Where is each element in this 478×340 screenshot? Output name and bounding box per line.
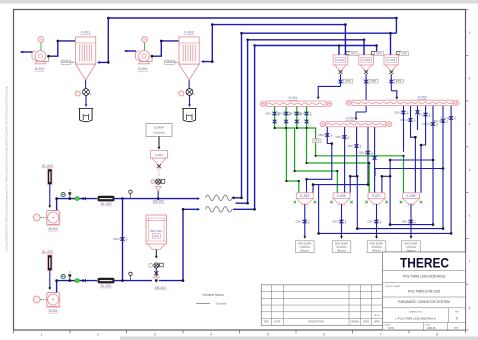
wire SL-002 to EB-002 junction [114, 198, 165, 200]
wire B-003 discharge to F-001 [49, 41, 76, 56]
wire SL-001 to DB-001 [114, 280, 152, 282]
wire F-001 to container [85, 96, 87, 106]
wire B-003 suction open [21, 51, 33, 53]
svg-text:CBV-9: CBV-9 [394, 111, 402, 115]
svg-text:CBV-6: CBV-6 [335, 135, 343, 139]
pressure gauge on B-002 line [61, 193, 65, 197]
bag dump station K-007 [368, 193, 385, 199]
bypass run R2 y228.6 [357, 176, 443, 228]
svg-text:DPS: DPS [396, 79, 402, 83]
wire EB-002 to hose 1 [165, 198, 198, 200]
svg-text:DZWS: DZWS [166, 60, 174, 64]
svg-text:BRU-001: BRU-001 [151, 229, 163, 233]
flex hose 1 [206, 195, 232, 201]
wire feeds to K-004 [390, 33, 392, 55]
wire BRU-001 down [155, 250, 157, 257]
svg-text:CBV-10: CBV-10 [400, 118, 409, 122]
svg-text:F-002: F-002 [184, 31, 193, 35]
svg-text:CBV-11: CBV-11 [415, 113, 424, 117]
svg-text:CBV-7: CBV-7 [347, 144, 355, 148]
rotary valve under F-002 [179, 91, 184, 96]
svg-text:B-003: B-003 [35, 67, 44, 71]
svg-text:CBV-3: CBV-3 [332, 220, 340, 224]
silencer SL-002 inline [98, 196, 114, 201]
svg-text:a: a [469, 31, 471, 35]
wire K-003 to H-002 [356, 112, 366, 118]
crossover wire x122 down [122, 199, 124, 281]
svg-text:CBV-3: CBV-3 [288, 112, 296, 116]
svg-text:DATE: DATE [425, 323, 430, 326]
container under F-001 [80, 109, 93, 122]
silencer SL-001 inline [98, 278, 114, 283]
svg-text:DPS: DPS [376, 52, 382, 56]
svg-text:DZWS: DZWS [62, 60, 70, 64]
svg-text:SL-003: SL-003 [42, 250, 53, 254]
drop H-003 #5 [432, 106, 434, 225]
wire y150 to K-005 center [307, 151, 332, 193]
title block frame [383, 252, 466, 330]
svg-text:EB-002: EB-002 [153, 200, 164, 204]
revision table [261, 285, 383, 326]
svg-text:K-003: K-003 [362, 58, 370, 62]
svg-text:d: d [469, 168, 471, 172]
svg-text:6: 6 [323, 332, 325, 336]
svg-text:CBV-2: CBV-2 [277, 112, 285, 116]
wire header H3 y33 [242, 32, 397, 34]
svg-text:DB-001: DB-001 [155, 286, 166, 290]
wire K-007 down [376, 204, 378, 237]
wire K-005 down [304, 204, 306, 237]
svg-text:THEREC: THEREC [400, 255, 449, 271]
svg-text:DRAWING NO: DRAWING NO [409, 311, 423, 314]
station label box K-005 [296, 241, 315, 253]
drop H-003 #7 [450, 106, 452, 233]
svg-text:PCS-TWIN-LION-2015: PCS-TWIN-LION-2015 [408, 289, 441, 293]
svg-text:CBV-3: CBV-3 [367, 220, 375, 224]
valve under K-004 [390, 74, 392, 91]
svg-text:DATE: DATE [275, 321, 281, 324]
svg-text:K-008: K-008 [407, 194, 416, 198]
svg-text:H-001: H-001 [289, 96, 298, 100]
scrap cyclone box [146, 124, 172, 137]
drop H-002 #4 [313, 127, 368, 193]
svg-text:DPS: DPS [402, 52, 408, 56]
drop H-002 #2 [344, 127, 346, 193]
svg-text:STATION: STATION [300, 246, 310, 249]
svg-text:SL-004: SL-004 [42, 164, 53, 168]
blower B-001 [33, 296, 40, 303]
instrument cluster above EB-002 [156, 179, 161, 184]
wire B-004 suction open [125, 50, 137, 52]
svg-text:REV: REV [455, 312, 460, 314]
svg-text:6 outside: 6 outside [216, 301, 227, 305]
svg-text:PCS-TWIN LION-2015-R01S: PCS-TWIN LION-2015-R01S [403, 275, 446, 279]
wire vertical x212 header to F-002 [202, 25, 213, 62]
station label box K-006 [332, 241, 351, 253]
svg-text:H-003: H-003 [418, 95, 427, 99]
svg-text:7: 7 [380, 332, 382, 336]
svg-text:B-004: B-004 [138, 67, 147, 71]
svg-text:2: 2 [97, 332, 99, 336]
wire B-004 discharge to F-002 [152, 41, 179, 56]
svg-text:PNEUMATIC CONVEYOR SYSTEM: PNEUMATIC CONVEYOR SYSTEM [398, 300, 450, 304]
green drop H-001 #1 [275, 107, 299, 193]
svg-text:B-001: B-001 [49, 309, 58, 313]
bag receiving unit BRU-001 [146, 215, 167, 244]
fan B-004 [142, 37, 148, 43]
svg-text:CBV-3: CBV-3 [402, 220, 410, 224]
svg-text:CHKD: CHKD [363, 322, 370, 324]
green drop H-001 #2 [286, 107, 337, 193]
svg-text:DESCRIPTION: DESCRIPTION [308, 322, 324, 324]
svg-text:K-005: K-005 [300, 194, 309, 198]
svg-text:K-004: K-004 [387, 58, 395, 62]
svg-text:STATION: STATION [371, 246, 381, 249]
receiver K-002 [333, 55, 348, 65]
check valve B-001 [83, 279, 86, 282]
bag dump station K-006 [333, 193, 350, 199]
drop H-003 #6 [442, 106, 444, 229]
svg-text:DPS: DPS [314, 139, 320, 143]
svg-text:CBV-8: CBV-8 [359, 151, 367, 155]
svg-text:B-002: B-002 [49, 227, 58, 231]
svg-text:CBV-5: CBV-5 [318, 133, 326, 137]
valve under K-003 [365, 74, 367, 112]
drop H-002 #3 bypass [350, 127, 356, 193]
receiver K-004 [384, 55, 399, 65]
svg-text:3: 3 [154, 332, 156, 336]
pressure gauge on B-001 line [61, 275, 65, 279]
instrument tag near H-001 right [313, 139, 322, 143]
svg-text:(Cyclone): (Cyclone) [153, 131, 165, 135]
wire vertical x108 header to F-001 [98, 18, 109, 62]
svg-text:e: e [469, 214, 471, 218]
wire DB-001 to riser x183 [159, 209, 198, 280]
wire vertical x396 H1 to H3 [395, 18, 397, 33]
wire hose1 to riser x241 [233, 33, 242, 198]
svg-text:K-001: K-001 [155, 153, 163, 157]
wire B-001 discharge [57, 281, 98, 293]
wire hose2 to riser x254 [233, 46, 255, 210]
border ruler ticks bottom [13, 330, 15, 333]
svg-text:K-002: K-002 [336, 58, 344, 62]
drop H-002 #5 [374, 127, 376, 193]
wire K-002 to H-001 [318, 86, 340, 96]
wire header H2 y24.5 [212, 24, 345, 26]
fan B-003 [38, 37, 44, 43]
wire K-006 down [341, 204, 343, 237]
station label box K-008 [402, 241, 421, 253]
svg-text:g: g [469, 305, 471, 309]
svg-text:DPS: DPS [351, 52, 357, 56]
drop H-003 #4 [421, 106, 426, 193]
svg-text:DPS: DPS [345, 79, 351, 83]
svg-text:DRAWN: DRAWN [350, 321, 359, 324]
svg-text:A.PS: A.PS [375, 314, 381, 317]
svg-text:M-04: M-04 [153, 235, 159, 238]
wire feeds to K-003 [363, 40, 365, 55]
svg-text:REV: REV [264, 322, 269, 324]
wire F-002 to container [189, 96, 191, 106]
green drop H-001 #4 [307, 107, 404, 193]
svg-text:CBV-12: CBV-12 [422, 122, 431, 126]
container under F-002 [183, 109, 196, 122]
wire K-001 down dashed [158, 169, 160, 178]
green drop H-001 #3 [297, 107, 369, 193]
wire header H1 y17 [108, 17, 396, 19]
wire feeds to K-002 [344, 25, 346, 55]
valve under BRU rotary [154, 271, 158, 275]
flex hose 2 [206, 207, 232, 213]
drop H-002 #1 [327, 127, 332, 151]
wire SL-004 to B-002 [49, 185, 51, 207]
blower B-002 [33, 214, 40, 221]
relief stub on B-002 line [69, 193, 71, 199]
wire B-002 discharge [57, 199, 98, 211]
rotary valve under F-001 [75, 91, 80, 96]
border ruler ticks right [466, 9, 469, 11]
svg-text:APPD: APPD [374, 321, 381, 324]
svg-text:5: 5 [267, 332, 269, 336]
svg-text:8: 8 [436, 332, 438, 336]
drop H-003 #1 [403, 106, 405, 152]
instrument on line x130 lower [130, 275, 132, 280]
svg-text:F-001: F-001 [81, 31, 90, 35]
svg-text:PROJECT NAME: PROJECT NAME [385, 285, 401, 288]
bypass run R3 y224.6 [390, 176, 433, 224]
svg-text:SL-002: SL-002 [101, 202, 112, 206]
svg-text:CBV-3: CBV-3 [296, 220, 304, 224]
title block bottom row [422, 322, 424, 330]
svg-text:CBV-8: CBV-8 [113, 237, 121, 241]
svg-text:4: 4 [210, 332, 212, 336]
receiver K-003 [359, 55, 374, 65]
wire header H4 y39.8 [248, 39, 364, 41]
drop H-003 #3 [417, 106, 419, 130]
wire K-008 down [410, 204, 412, 237]
separator K-001 [151, 151, 168, 159]
svg-text:H-002: H-002 [346, 117, 355, 121]
svg-text:SCALE: SCALE [385, 323, 392, 326]
title block drawing no row [448, 308, 450, 323]
diverter DB-001 [154, 277, 160, 281]
svg-text:SL-001: SL-001 [101, 284, 112, 288]
svg-text:STATION: STATION [406, 246, 416, 249]
svg-text:K-006: K-006 [337, 194, 346, 198]
rotary valve under BRU-001 [149, 263, 153, 267]
valve V green B-002 [75, 197, 80, 201]
relief stub on B-001 line [69, 275, 71, 281]
diverter EB-002 [155, 186, 161, 191]
wire stub to riser x247 [236, 40, 248, 203]
wire SL-003 to B-001 [49, 271, 51, 289]
svg-text:STATION: STATION [336, 246, 346, 249]
svg-text:(Blower): (Blower) [372, 249, 381, 252]
check valve B-002 [83, 197, 86, 200]
instrument on line x130 [130, 193, 132, 198]
crossover valve CBV-8 [121, 238, 125, 239]
wire K-004 to H-003 [391, 91, 397, 97]
svg-text:0: 0 [456, 317, 458, 321]
svg-text:C:\Acad\THEREC\PCS-TWIN LION-2: C:\Acad\THEREC\PCS-TWIN LION-2015\Drawin… [5, 86, 9, 252]
bypass run R1 y233.4 [319, 185, 452, 234]
svg-text:CBV-14: CBV-14 [440, 116, 449, 120]
valve under K-002 [340, 74, 342, 86]
svg-text:(Blower): (Blower) [337, 249, 346, 252]
svg-text:DPS: DPS [371, 79, 377, 83]
svg-text:(Blower): (Blower) [300, 249, 309, 252]
bag dump station K-008 [403, 193, 420, 199]
svg-text:N.TS: N.TS [388, 327, 394, 330]
svg-text:f: f [469, 260, 470, 264]
valve V green B-001 [75, 279, 80, 283]
svg-text:APR-15: APR-15 [427, 327, 436, 330]
svg-text:b: b [469, 76, 471, 80]
bag dump station K-005 [296, 193, 313, 199]
wire header H5 y45.5 [255, 45, 377, 47]
svg-text:CBV-4: CBV-4 [297, 112, 305, 116]
svg-text:L-PCS-TWIN LION-2015-Rev-0: L-PCS-TWIN LION-2015-Rev-0 [395, 317, 436, 321]
svg-text:General Notes: General Notes [202, 293, 224, 297]
svg-text:1: 1 [41, 332, 43, 336]
svg-text:CBV-1: CBV-1 [265, 112, 273, 116]
drop H-003 #2 [411, 106, 416, 193]
station label box K-007 [367, 241, 386, 253]
svg-text:SCRAP: SCRAP [154, 126, 164, 130]
svg-text:K-007: K-007 [372, 194, 381, 198]
wire scrap to K-001 [158, 137, 160, 148]
